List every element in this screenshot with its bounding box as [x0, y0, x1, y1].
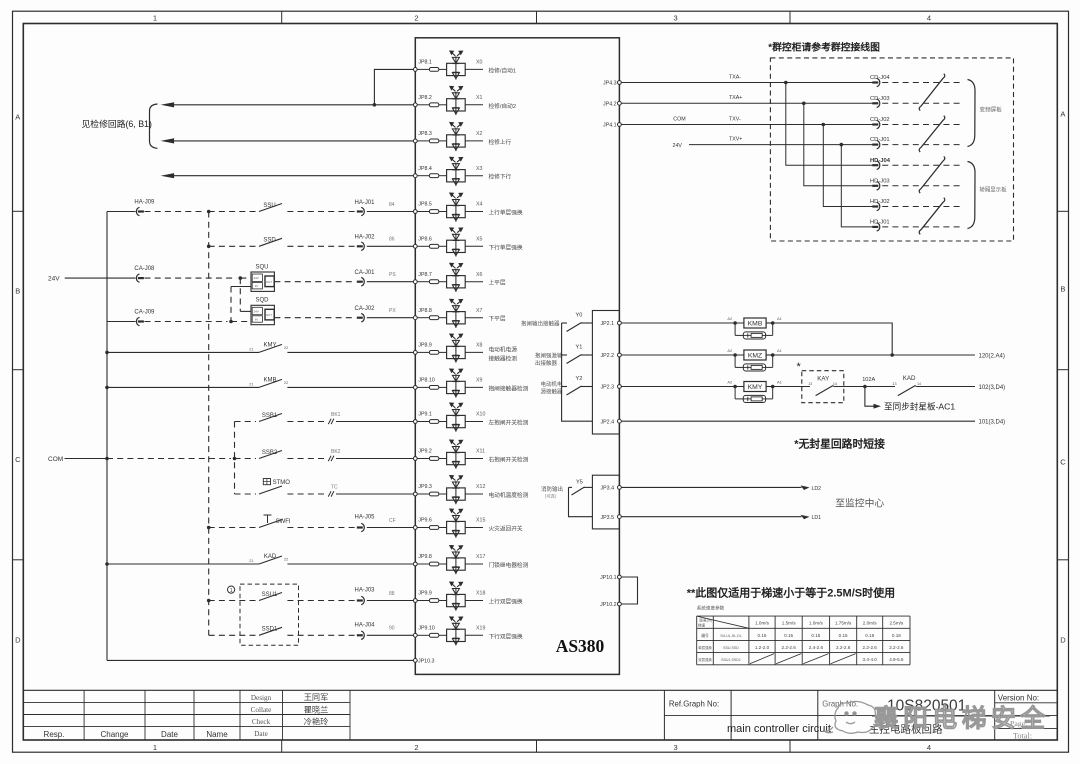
sensor module SQU: [251, 272, 274, 291]
svg-text:系统速度参数: 系统速度参数: [697, 605, 725, 612]
wire JP2.4 output 101: [621, 420, 975, 422]
svg-text:PX: PX: [389, 308, 396, 314]
wire X9 out: [465, 386, 483, 388]
wire from bus: [107, 211, 136, 213]
optocoupler X15: [447, 509, 466, 538]
relay coil KMZ: [621, 348, 781, 371]
svg-text:JP9.6: JP9.6: [418, 518, 432, 524]
svg-text:Y0: Y0: [576, 313, 583, 319]
svg-text:2: 2: [414, 743, 418, 752]
connector CD-J04: [870, 75, 963, 87]
svg-text:2.2-2.6: 2.2-2.6: [889, 645, 904, 650]
svg-text:3: 3: [674, 743, 678, 752]
terminal JP9.2: [413, 457, 417, 461]
svg-text:X2: X2: [476, 131, 483, 137]
svg-text:**此图仅适用于梯速小于等于2.5M/S时使用: **此图仅适用于梯速小于等于2.5M/S时使用: [687, 586, 895, 600]
resistor JP8.1: [417, 68, 429, 70]
svg-text:SSD: SSD: [263, 238, 276, 244]
svg-text:消防输出: 消防输出: [541, 485, 563, 493]
KAY dashed enclosure: [802, 371, 844, 403]
terminal JP9.1: [413, 420, 417, 424]
svg-text:KAY: KAY: [817, 375, 829, 382]
optocoupler X1: [447, 86, 466, 115]
sensor module SQD: [251, 305, 274, 324]
svg-text:A2: A2: [727, 380, 732, 385]
branch to star board: [865, 387, 875, 407]
bracket: [150, 104, 158, 148]
connector HA-J02: [361, 242, 364, 250]
terminal JP8.9: [413, 351, 417, 355]
group control dashed box: [770, 58, 1013, 241]
svg-text:X11: X11: [476, 449, 485, 455]
controller U1 AS380 main box: [415, 38, 619, 675]
svg-text:源接触器: 源接触器: [540, 387, 563, 395]
svg-text:X19: X19: [476, 626, 485, 632]
SSB dashed bus: [234, 422, 236, 495]
terminal JP8.1: [413, 68, 417, 72]
zone ticks right: [1057, 210, 1068, 212]
svg-text:抱闸接触器检测: 抱闸接触器检测: [489, 384, 529, 392]
optocoupler X3: [447, 157, 466, 186]
wire X1 out: [465, 104, 483, 106]
svg-text:CF: CF: [389, 518, 396, 524]
svg-text:梯速: 梯速: [698, 623, 706, 628]
resistor JP8.10: [417, 386, 429, 388]
svg-text:22: 22: [284, 346, 288, 350]
resistor JP9.9: [417, 600, 429, 602]
riser JP4.3 to HD-J04: [784, 81, 788, 85]
switch STMO thermal: [235, 493, 257, 495]
svg-text:JP8.9: JP8.9: [418, 343, 432, 349]
svg-text:X7: X7: [476, 308, 483, 314]
svg-text:JP2.2: JP2.2: [601, 353, 615, 359]
connector HD-J02: [870, 199, 963, 211]
svg-text:21: 21: [249, 347, 253, 351]
svg-text:COM: COM: [673, 117, 685, 123]
optocoupler X8: [447, 334, 466, 363]
resistor JP8.9: [417, 351, 429, 353]
svg-text:0.18: 0.18: [865, 633, 874, 638]
svg-text:JP2.3: JP2.3: [601, 385, 615, 391]
svg-text:102(3,D4): 102(3,D4): [979, 385, 1006, 391]
svg-text:JP8.4: JP8.4: [418, 166, 432, 172]
switch SSB1 branch: [235, 421, 257, 423]
junction JP8.1/JP8.2: [373, 103, 377, 107]
svg-text:下行单层强换: 下行单层强换: [489, 243, 523, 251]
svg-text:抱闸强激输: 抱闸强激输: [535, 351, 563, 359]
svg-text:JP4.3: JP4.3: [603, 81, 617, 87]
svg-text:2: 2: [414, 14, 418, 23]
svg-text:JP2.1: JP2.1: [601, 321, 615, 327]
svg-text:120(2.A4): 120(2.A4): [979, 353, 1005, 359]
wire X18 out: [465, 600, 483, 602]
svg-text:JP4.2: JP4.2: [603, 102, 617, 108]
svg-text:21: 21: [249, 382, 253, 386]
svg-text:HA-J09: HA-J09: [134, 200, 155, 206]
junction on dashed bus: [207, 210, 211, 214]
terminal JP8.10: [413, 386, 417, 390]
left solid bus: [106, 212, 108, 661]
resistor JP8.8: [417, 317, 429, 319]
terminal JP8.7: [413, 280, 417, 284]
svg-text:0.15: 0.15: [839, 633, 848, 638]
resistor JP8.2: [417, 104, 429, 106]
svg-text:上平层: 上平层: [489, 279, 506, 287]
wire X12 out: [465, 493, 483, 495]
svg-text:JP2.4: JP2.4: [601, 419, 615, 425]
svg-text:接触器检测: 接触器检测: [489, 354, 518, 362]
port JP2.4: [618, 419, 622, 423]
terminal JP9.6: [413, 526, 417, 530]
svg-text:JP9.2: JP9.2: [418, 449, 432, 455]
svg-text:101(3,D4): 101(3,D4): [979, 420, 1006, 426]
svg-text:OUT: OUT: [266, 280, 272, 284]
svg-text:*群控柜请参考群控接线图: *群控柜请参考群控接线图: [768, 41, 880, 54]
svg-text:CA-J01: CA-J01: [354, 270, 375, 276]
contact KMB: [105, 386, 109, 390]
wire X10 out: [465, 421, 483, 423]
connector CA-J02: [361, 314, 364, 322]
svg-text:检修下行: 检修下行: [489, 173, 512, 181]
title block left table: [23, 690, 1057, 740]
svg-text:X12: X12: [476, 484, 485, 490]
svg-text:STMO: STMO: [273, 480, 291, 486]
connector HA-J04: [361, 631, 364, 639]
svg-text:*无封星回路时短接: *无封星回路时短接: [794, 437, 885, 451]
zone ticks left: [13, 210, 24, 212]
brace CD group: [968, 80, 976, 147]
svg-text:1.5m/s: 1.5m/s: [782, 621, 796, 626]
junction on dashed bus: [207, 245, 211, 249]
svg-text:JP8.3: JP8.3: [418, 131, 432, 137]
svg-text:SSD1: SSD1: [262, 627, 278, 633]
svg-text:2.0m/s: 2.0m/s: [863, 621, 877, 626]
svg-text:HA-J05: HA-J05: [354, 515, 375, 521]
svg-text:TC: TC: [331, 485, 338, 491]
svg-text:A: A: [15, 113, 20, 122]
svg-text:SQU: SQU: [256, 264, 269, 270]
optocoupler X9: [447, 369, 466, 398]
svg-text:2.5m/s: 2.5m/s: [889, 621, 903, 626]
wire LD2: [621, 486, 801, 488]
connector CA-J09: [107, 321, 136, 323]
svg-text:Change: Change: [100, 730, 129, 739]
resistor JP8.5: [417, 211, 429, 213]
svg-text:襄阳电梯安全: 襄阳电梯安全: [873, 704, 1050, 733]
dashed option box SSU1/SSD1: [240, 584, 299, 645]
port JP2.3: [618, 385, 622, 389]
wire JP4.3 TXA-: [621, 82, 874, 84]
wire KMZ output 120: [773, 354, 975, 356]
svg-text:D: D: [1060, 636, 1066, 645]
arrow to inspection circuit row JP8.4: [172, 175, 413, 177]
svg-text:Resp.: Resp.: [44, 730, 65, 739]
svg-text:X9: X9: [476, 378, 483, 384]
wire 24V to connector: [65, 277, 136, 279]
svg-text:HA-J02: HA-J02: [354, 235, 375, 241]
svg-text:JP9.9: JP9.9: [418, 591, 432, 597]
switch SSU1: [259, 593, 282, 601]
optocoupler X6: [447, 263, 466, 292]
svg-text:*: *: [797, 361, 802, 373]
svg-text:至同步封星板-AC1: 至同步封星板-AC1: [884, 400, 955, 411]
svg-text:1: 1: [230, 588, 233, 594]
port JP4.1: [618, 123, 622, 127]
cable slash HD-J04/HD-J03: [919, 156, 945, 193]
svg-text:84: 84: [389, 202, 395, 208]
junction COM on SSB bus: [233, 457, 237, 461]
svg-text:PS: PS: [389, 272, 396, 278]
svg-text:X18: X18: [476, 591, 485, 597]
wire X17 out: [465, 563, 483, 565]
svg-text:X1: X1: [476, 95, 483, 101]
watermark logo bubble: [824, 701, 876, 733]
svg-text:14: 14: [917, 382, 921, 386]
optocoupler X12: [447, 476, 466, 505]
wire LD1: [621, 516, 801, 518]
wire X15 out: [465, 527, 483, 529]
contact KAD: [105, 562, 109, 566]
svg-text:SQD: SQD: [256, 298, 270, 304]
contact Y0: [562, 322, 567, 324]
optocoupler X2: [447, 123, 466, 152]
terminal JP8.5: [413, 210, 417, 214]
svg-text:SSU,SSD: SSU,SSD: [723, 646, 739, 650]
optocoupler X4: [447, 193, 466, 222]
brace HD group: [968, 162, 976, 229]
svg-text:C: C: [15, 455, 21, 464]
svg-text:0.15: 0.15: [811, 633, 820, 638]
svg-text:KMB: KMB: [748, 320, 763, 327]
terminal JP9.10: [413, 633, 417, 637]
svg-text:Ref.Graph No:: Ref.Graph No:: [669, 700, 719, 709]
svg-text:瞿晓兰: 瞿晓兰: [304, 704, 329, 714]
svg-text:王同军: 王同军: [304, 693, 329, 702]
svg-text:KMZ: KMZ: [748, 352, 762, 359]
svg-text:Version No:: Version No:: [998, 694, 1039, 703]
resistor JP8.6: [417, 245, 429, 247]
terminal JP8.3: [413, 139, 417, 143]
optocoupler X19: [447, 617, 466, 646]
wire X5 out: [465, 245, 483, 247]
wire SQD out: [274, 317, 355, 319]
resistor JP8.7: [417, 281, 429, 283]
svg-text:COM: COM: [48, 456, 63, 463]
svg-text:Date: Date: [161, 730, 178, 739]
optocoupler X17: [447, 546, 466, 575]
svg-text:X10: X10: [476, 412, 485, 418]
svg-text:OUT: OUT: [266, 313, 272, 317]
svg-text:电动机温度检测: 电动机温度检测: [489, 491, 529, 499]
svg-text:HA-J03: HA-J03: [354, 588, 375, 594]
svg-text:A2: A2: [727, 316, 732, 321]
svg-text:1: 1: [153, 14, 157, 23]
relay coil KMB: [621, 316, 781, 339]
svg-text:JP8.7: JP8.7: [418, 272, 432, 278]
svg-text:TXV+: TXV+: [729, 136, 742, 142]
svg-text:电动机电: 电动机电: [540, 380, 563, 388]
title block right section: [664, 690, 994, 740]
resistor JP9.10: [417, 634, 429, 636]
switch SSD1: [259, 627, 282, 635]
optocoupler X5: [447, 228, 466, 257]
resistor JP8.4: [417, 175, 429, 177]
svg-text:X17: X17: [476, 554, 485, 560]
svg-text:TXA+: TXA+: [729, 95, 742, 101]
svg-text:21: 21: [249, 559, 253, 563]
junction CA-J09 to SQU.IN: [229, 320, 233, 324]
svg-text:Name: Name: [206, 730, 228, 739]
svg-text:LD1: LD1: [812, 515, 822, 521]
svg-text:1.2-2.0: 1.2-2.0: [755, 645, 770, 650]
arrow to inspection circuit row JP8.3: [172, 140, 413, 142]
zone ticks top: [281, 11, 283, 23]
wire JP4.1 TXV- COM: [621, 124, 874, 126]
svg-text:JP8.2: JP8.2: [418, 95, 432, 101]
optocoupler X10: [447, 403, 466, 432]
resistor JP9.2: [417, 458, 429, 460]
svg-text:C: C: [1060, 458, 1066, 467]
contact KAD: [865, 386, 895, 388]
svg-text:距离(m): 距离(m): [699, 617, 712, 622]
contact Y2: [562, 386, 567, 388]
wire X2 out: [465, 140, 483, 142]
svg-text:KMY: KMY: [263, 342, 276, 348]
connector HA-J05: [361, 523, 364, 531]
cable slash CD-J02/CD-J01: [919, 116, 945, 152]
svg-text:JP8.1: JP8.1: [418, 60, 432, 66]
svg-text:102A: 102A: [862, 377, 875, 383]
svg-text:CA-J08: CA-J08: [134, 266, 155, 272]
svg-text:D: D: [15, 636, 21, 645]
terminal JP10.3: [413, 659, 417, 663]
svg-text:B: B: [1060, 285, 1065, 294]
svg-text:2.2-2.6: 2.2-2.6: [781, 645, 796, 650]
svg-text:X3: X3: [476, 166, 483, 172]
svg-text:JP4.1: JP4.1: [603, 123, 617, 129]
Y common wire to JP2.4: [562, 323, 593, 421]
svg-text:JP10.3: JP10.3: [418, 659, 435, 665]
terminal JP8.6: [413, 244, 417, 248]
wire X3 out: [465, 175, 483, 177]
svg-text:X15: X15: [476, 518, 485, 524]
switch SSB2: [259, 451, 282, 459]
contact Y1: [562, 354, 567, 356]
svg-text:JP10.2: JP10.2: [600, 602, 617, 608]
cable slash HD-J02/HD-J01: [919, 198, 945, 235]
svg-text:CD-J04: CD-J04: [870, 75, 890, 81]
svg-text:KMB: KMB: [263, 377, 276, 383]
wire X11 out: [465, 458, 483, 460]
resistor JP9.3: [417, 493, 429, 495]
svg-text:24V: 24V: [254, 310, 259, 314]
svg-text:X0: X0: [476, 60, 483, 66]
speed table: [697, 616, 910, 665]
svg-text:Total:: Total:: [1013, 731, 1032, 740]
terminal JP9.8: [413, 562, 417, 566]
svg-text:AS380: AS380: [556, 636, 605, 656]
svg-text:14: 14: [833, 382, 837, 386]
svg-text:4: 4: [927, 14, 931, 23]
dashed bus: [208, 212, 210, 636]
option marker circled 1: [228, 586, 235, 593]
svg-text:IN: IN: [255, 318, 258, 322]
wire KAD output 102: [916, 386, 975, 388]
junction 102A: [863, 385, 867, 389]
junction on dashed bus: [207, 599, 211, 603]
svg-text:3: 3: [674, 14, 678, 23]
svg-text:SSB1: SSB1: [262, 413, 278, 419]
wire X7 out: [465, 317, 483, 319]
port JP2.2: [618, 353, 622, 357]
svg-text:22: 22: [284, 558, 288, 562]
svg-text:Date: Date: [254, 730, 268, 738]
short loop JP10.1-JP10.2: [621, 577, 637, 604]
svg-text:A1: A1: [777, 348, 782, 353]
riser JP4.2 to HD-J03: [802, 102, 806, 106]
zone ticks bottom: [281, 740, 283, 752]
optocoupler X0: [447, 51, 466, 80]
svg-text:CA-J09: CA-J09: [134, 310, 155, 316]
bottom wire to JP10.3: [107, 659, 413, 661]
svg-text:2.4-2.6: 2.4-2.6: [809, 645, 824, 650]
port JP4.2: [618, 101, 622, 105]
svg-text:出接触器: 出接触器: [535, 359, 558, 367]
relay coil KMY: [621, 380, 781, 403]
svg-text:见检修回路(6, B1): 见检修回路(6, B1): [82, 118, 152, 129]
optocoupler X11: [447, 440, 466, 469]
optocoupler X18: [447, 582, 466, 611]
arrow to inspection circuit row JP8.2: [172, 104, 413, 106]
svg-text:X4: X4: [476, 202, 483, 208]
svg-text:JP9.10: JP9.10: [418, 626, 435, 632]
svg-text:(可选): (可选): [545, 493, 557, 500]
wire dashed: [145, 211, 205, 213]
svg-text:LD2: LD2: [812, 486, 822, 492]
connector HD-J03: [870, 178, 963, 190]
svg-text:4.9-5.6: 4.9-5.6: [889, 657, 904, 662]
resistor JP9.1: [417, 421, 429, 423]
svg-text:0.15: 0.15: [758, 633, 767, 638]
svg-text:Y5: Y5: [576, 480, 583, 486]
svg-text:HD-J04: HD-J04: [870, 158, 891, 164]
port JP3.4: [618, 486, 622, 490]
svg-text:单层强换: 单层强换: [698, 645, 712, 650]
connector CD-J02: [870, 117, 963, 129]
svg-text:SSB2: SSB2: [262, 450, 278, 456]
svg-text:JP3.4: JP3.4: [601, 486, 615, 492]
svg-text:HA-J01: HA-J01: [354, 200, 375, 206]
port JP2.1: [618, 321, 622, 325]
wire X4 out: [465, 211, 483, 213]
svg-text:Y2: Y2: [576, 376, 583, 382]
svg-text:24V: 24V: [48, 276, 60, 283]
svg-text:A1: A1: [777, 380, 782, 385]
svg-text:2.2-2.6: 2.2-2.6: [863, 645, 878, 650]
svg-text:X5: X5: [476, 237, 483, 243]
svg-text:上行单层强换: 上行单层强换: [489, 209, 523, 217]
port block JP2: [592, 311, 619, 435]
terminal JP9.9: [413, 599, 417, 603]
junction COM on bus: [105, 457, 109, 461]
svg-text:下平层: 下平层: [489, 316, 506, 323]
svg-text:13: 13: [892, 382, 896, 386]
svg-text:Collate: Collate: [251, 706, 272, 714]
svg-text:BK1: BK1: [331, 412, 341, 418]
svg-text:A: A: [1060, 110, 1065, 119]
svg-text:A2: A2: [727, 348, 732, 353]
svg-text:IN: IN: [255, 284, 258, 288]
